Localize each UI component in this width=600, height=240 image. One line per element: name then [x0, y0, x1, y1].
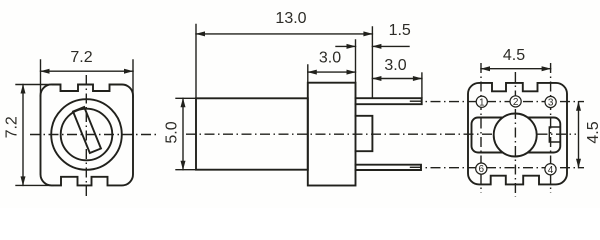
right view pin column centerline 1: [480, 63, 482, 193]
dimension 7.2 horizontal: dimension line with arrows: [41, 70, 134, 72]
right view pin column centerline 3: [550, 63, 552, 193]
svg-text:5.0: 5.0: [164, 121, 181, 143]
svg-text:6: 6: [479, 164, 485, 175]
dimension 5.0: extension lines: [176, 98, 196, 169]
middle view body flange: [308, 83, 356, 186]
svg-text:4.5: 4.5: [585, 121, 600, 143]
dimension 1.5: left outside arrow: [336, 45, 356, 47]
svg-text:3.0: 3.0: [319, 50, 341, 67]
dimension 3.0 pin: dimension line with arrows: [372, 78, 422, 80]
dimension 5.0: dimension line with arrows: [182, 98, 184, 169]
svg-text:4.5: 4.5: [503, 47, 525, 64]
dimension 7.2 vertical: extension lines: [16, 85, 53, 186]
svg-text:3: 3: [548, 98, 554, 109]
pin 4 circle: [545, 164, 556, 175]
dimension 3.0 flange: dimension line with arrows: [308, 71, 356, 73]
bottom pin centerline row: [424, 167, 584, 169]
dimension 13.0: extension lines: [196, 25, 372, 99]
svg-text:1: 1: [479, 97, 485, 108]
dimension 7.2 vertical: dimension line with arrows: [22, 85, 24, 186]
left view screwdriver slot: [73, 107, 101, 153]
left view vertical centerline: [85, 75, 87, 199]
right view body outline with top/bottom notches: [468, 83, 567, 184]
pin 6 circle: [476, 163, 487, 174]
left view horizontal centerline: [30, 134, 156, 136]
svg-text:13.0: 13.0: [275, 10, 306, 27]
right view central circle (white filled): [494, 114, 537, 157]
dimension 7.2 horizontal: extension lines: [41, 60, 134, 97]
dimension 13.0: dimension line with arrows: [196, 33, 372, 35]
top pin centerline row: [424, 101, 584, 103]
dimension 3.0 pin: extension line right: [421, 73, 423, 98]
middle view top pin: [356, 98, 422, 104]
middle view bottom pin: [356, 165, 422, 170]
pin 3 circle: [545, 96, 556, 107]
right view pin column centerline 2: [514, 72, 516, 197]
svg-text:7.2: 7.2: [70, 49, 92, 66]
svg-text:7.2: 7.2: [3, 116, 20, 138]
main horizontal centerline through middle view to right view: [186, 133, 576, 135]
svg-text:4: 4: [548, 165, 554, 176]
dimension 4.5 horizontal: dimension line with arrows: [481, 68, 551, 70]
svg-text:2: 2: [513, 97, 519, 108]
pin 2 circle: [510, 96, 521, 107]
dimension 3.0 flange: extension line left: [308, 40, 356, 82]
left view body outline with top/bottom notches: [40, 84, 133, 185]
right view rotor slot rounded rectangle: [472, 118, 561, 153]
left view outer rotor circle: [51, 99, 122, 170]
top pin end crimp line: [411, 100, 422, 102]
pin 1 circle: [476, 96, 487, 107]
bottom pin end crimp line: [411, 166, 421, 168]
middle view rotor barrel: [196, 98, 308, 169]
dimension 4.5 vertical: dimension line with arrows: [578, 102, 580, 168]
svg-text:1.5: 1.5: [389, 22, 411, 39]
right view rotor stop small rectangle: [549, 127, 560, 142]
dimension 1.5: right outside arrow: [372, 45, 409, 47]
svg-text:3.0: 3.0: [384, 57, 406, 74]
left view inner rotor circle: [61, 109, 113, 161]
middle view center stub pin: [356, 116, 373, 151]
